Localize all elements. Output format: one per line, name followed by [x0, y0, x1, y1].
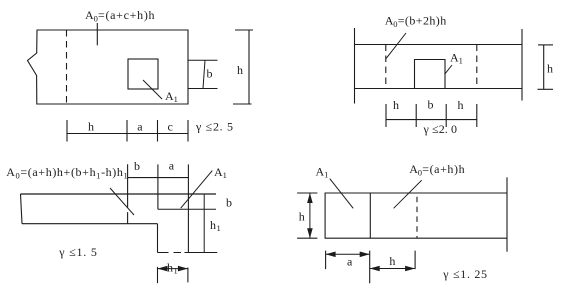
- svg-text:h: h: [167, 261, 173, 275]
- wall left edge: [21, 194, 23, 224]
- right end cut line: [506, 177, 508, 251]
- strip bottom line: [355, 88, 523, 90]
- h1 dim vertical: [203, 194, 205, 253]
- left arrowhead: [158, 266, 168, 272]
- h dim left: arrow line: [309, 193, 311, 238]
- formula A0=(a+h)h: [409, 162, 464, 178]
- bottom h1 arrow line: [158, 268, 188, 270]
- bottom solid line: [185, 252, 218, 254]
- right arrowhead: [178, 266, 188, 272]
- svg-text:h: h: [88, 120, 94, 134]
- h dim arrow line: [370, 268, 415, 270]
- svg-text:h: h: [299, 210, 305, 224]
- svg-text:b: b: [207, 67, 213, 81]
- plate right edge / tick: [187, 164, 189, 252]
- svg-text:h: h: [458, 98, 464, 112]
- plate A1 square: [128, 59, 158, 89]
- tick 2: [126, 120, 128, 142]
- a dim right tick: [369, 251, 371, 284]
- A1 label: [316, 165, 329, 180]
- h right arrowhead: [405, 266, 415, 272]
- svg-text:a: a: [137, 120, 143, 134]
- svg-text:1: 1: [174, 94, 178, 104]
- down arrowhead: [307, 228, 313, 238]
- tick 3: [445, 104, 447, 127]
- bottom h1 dim right tick: [187, 268, 189, 283]
- formula A0=(a+c+h)h: [85, 8, 155, 24]
- tick b-left solid part: [127, 164, 129, 177]
- svg-text:A0=(a+h)h+(b+h1-h)h1: A0=(a+h)h+(b+h1-h)h1: [6, 165, 128, 181]
- A1 label: [165, 89, 178, 104]
- bottom h1 dim left tick: [157, 267, 159, 283]
- up arrowhead: [307, 193, 313, 203]
- dashed boundary below: [127, 178, 129, 224]
- tick 2: [415, 104, 417, 127]
- dashed boundary: [416, 197, 418, 238]
- dashed boundary right: [476, 45, 478, 89]
- tick 1: [66, 120, 68, 142]
- A0 leader: [110, 188, 134, 215]
- svg-text:h: h: [393, 98, 399, 112]
- svg-text:h: h: [389, 254, 395, 268]
- right end line: [521, 29, 523, 101]
- h1 label on dim: [167, 261, 178, 276]
- A1 leader: [445, 65, 452, 74]
- svg-text:1: 1: [174, 266, 178, 276]
- h dim right tick: [414, 251, 416, 270]
- svg-text:γ ≤2. 0: γ ≤2. 0: [423, 122, 458, 136]
- tick 4: [476, 104, 478, 127]
- svg-text:h: h: [547, 62, 553, 76]
- svg-text:b: b: [226, 196, 232, 210]
- bottom dashed break line: [158, 252, 182, 254]
- h dimension right: [233, 30, 253, 104]
- h1 label right: [210, 218, 221, 233]
- wall bottom edge: [22, 223, 158, 225]
- svg-text:γ ≤1. 5: γ ≤1. 5: [58, 245, 97, 259]
- dashed A0 boundary line: [66, 30, 68, 104]
- a dim arrow line: [326, 253, 370, 255]
- divider line: [369, 193, 371, 238]
- plate left edge / tick: [157, 164, 159, 209]
- b dim line: [203, 60, 205, 88]
- svg-text:=(b+2h)h: =(b+2h)h: [398, 14, 447, 28]
- h dim left: bottom tick: [297, 237, 317, 239]
- svg-text:b: b: [134, 159, 140, 173]
- svg-text:1: 1: [217, 223, 221, 233]
- A1 leader: [181, 171, 213, 209]
- svg-text:=(a+c+h)h: =(a+c+h)h: [98, 8, 155, 22]
- a left arrowhead: [326, 252, 336, 258]
- tick 1: [385, 104, 387, 127]
- svg-text:=(a+h)h: =(a+h)h: [422, 162, 464, 176]
- wall rectangle: [325, 193, 507, 238]
- stub top line: [188, 59, 218, 61]
- a right arrowhead: [360, 252, 370, 258]
- top dim line: [128, 177, 189, 179]
- svg-text:γ ≤1. 25: γ ≤1. 25: [442, 267, 487, 281]
- formula A0=(b+2h)h: [385, 14, 447, 30]
- wall outline A with break notch on left: [28, 30, 189, 104]
- a dim left tick: [325, 251, 327, 270]
- svg-text:a: a: [169, 159, 175, 173]
- svg-text:1: 1: [459, 56, 463, 66]
- strip top line: [355, 44, 523, 46]
- A1 label: [214, 165, 227, 180]
- step vertical edge: [157, 224, 159, 253]
- svg-text:h: h: [210, 218, 216, 232]
- wall top edge: [21, 193, 217, 195]
- A1 leader: [330, 179, 353, 209]
- svg-text:a: a: [347, 255, 353, 269]
- svg-text:b: b: [428, 98, 434, 112]
- bottom dimension line: [67, 133, 188, 135]
- left end line: [354, 28, 356, 104]
- svg-text:c: c: [168, 120, 173, 134]
- stub bottom line: [188, 88, 218, 90]
- leader tick from formula A0: [96, 23, 98, 45]
- bottom dimension line: [386, 119, 477, 121]
- svg-text:1: 1: [223, 170, 227, 180]
- tick 3: [157, 120, 159, 142]
- dashed boundary left: [385, 45, 387, 89]
- svg-text:1: 1: [324, 170, 328, 180]
- A1 label: [450, 51, 463, 66]
- svg-text:h: h: [237, 63, 243, 77]
- h dimension right: [538, 45, 554, 89]
- h dim left: top tick: [297, 192, 317, 194]
- A0 leader: [386, 33, 406, 58]
- svg-text:γ ≤2. 5: γ ≤2. 5: [195, 120, 233, 134]
- plate A1 square: [415, 60, 446, 89]
- plate bottom edge: [158, 208, 216, 210]
- tick 4: [187, 120, 189, 142]
- A0 leader: [394, 180, 422, 208]
- h left arrowhead: [370, 266, 380, 272]
- A1 leader: [143, 80, 162, 99]
